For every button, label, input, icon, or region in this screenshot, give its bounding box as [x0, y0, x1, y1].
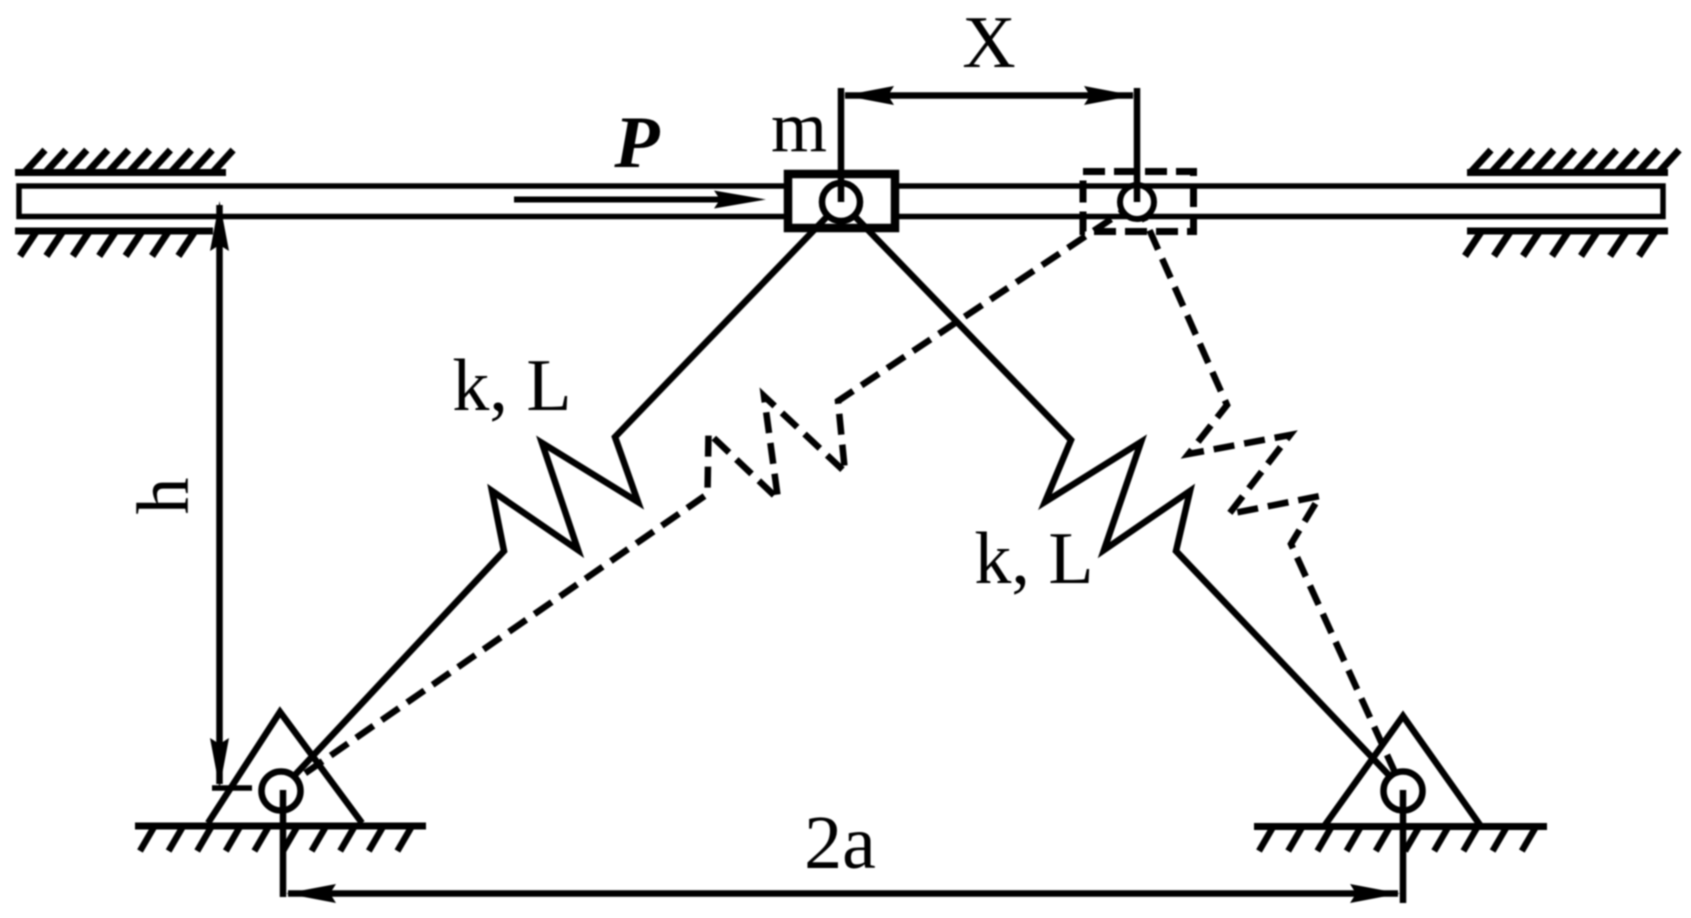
- svg-text:h: h: [123, 478, 205, 515]
- pin circle right pivot: [1384, 772, 1423, 811]
- dimension h: vertical dimension line with arrows: [210, 201, 229, 788]
- spring left (dashed, displaced position) from phantom block to left pivot: [281, 202, 1137, 790]
- rail (horizontal slide bar): [19, 186, 1663, 217]
- spring right (dashed, displaced position) from phantom block to right pivot: [1137, 202, 1403, 790]
- ground left with hatching: [135, 826, 426, 851]
- svg-text:X: X: [962, 2, 1015, 84]
- pin circle left pivot: [262, 772, 301, 811]
- pin support triangle left: [208, 712, 362, 823]
- wall support top-right with hatching: [1467, 150, 1679, 173]
- svg-text:P: P: [613, 102, 660, 184]
- spring k,L left (solid) from mass to left pivot: [281, 202, 841, 790]
- pin circle of mass block: [822, 183, 860, 221]
- dimension h: bottom reference tick at pivot level: [212, 785, 252, 791]
- pin circle of phantom block: [1120, 185, 1154, 219]
- svg-text:k, L: k, L: [452, 345, 571, 427]
- phantom (displaced) slider block, dashed: [1083, 172, 1194, 232]
- dimension 2a: extension line right from pivot: [1400, 790, 1407, 903]
- svg-text:2a: 2a: [804, 801, 876, 885]
- pin support triangle right: [1325, 716, 1480, 825]
- svg-text:k, L: k, L: [974, 518, 1093, 600]
- dimension 2a: dimension line with arrows: [286, 884, 1400, 903]
- spring k,L right (solid) from mass to right pivot: [841, 202, 1403, 790]
- dimension 2a: extension line left from pivot: [280, 790, 287, 897]
- dimension X: dimension line with arrows: [844, 86, 1134, 105]
- wall support bottom-left with hatching: [15, 231, 213, 256]
- dimension X: extension line right: [1134, 88, 1141, 202]
- wall support top-left with hatching: [15, 150, 233, 173]
- svg-text:m: m: [771, 87, 827, 167]
- force P arrow along rail: [514, 191, 766, 209]
- dimension X: extension line left: [838, 88, 845, 202]
- mass m slider block on rail: [788, 174, 895, 228]
- ground right with hatching: [1254, 827, 1547, 852]
- wall support bottom-right with hatching: [1465, 231, 1668, 256]
